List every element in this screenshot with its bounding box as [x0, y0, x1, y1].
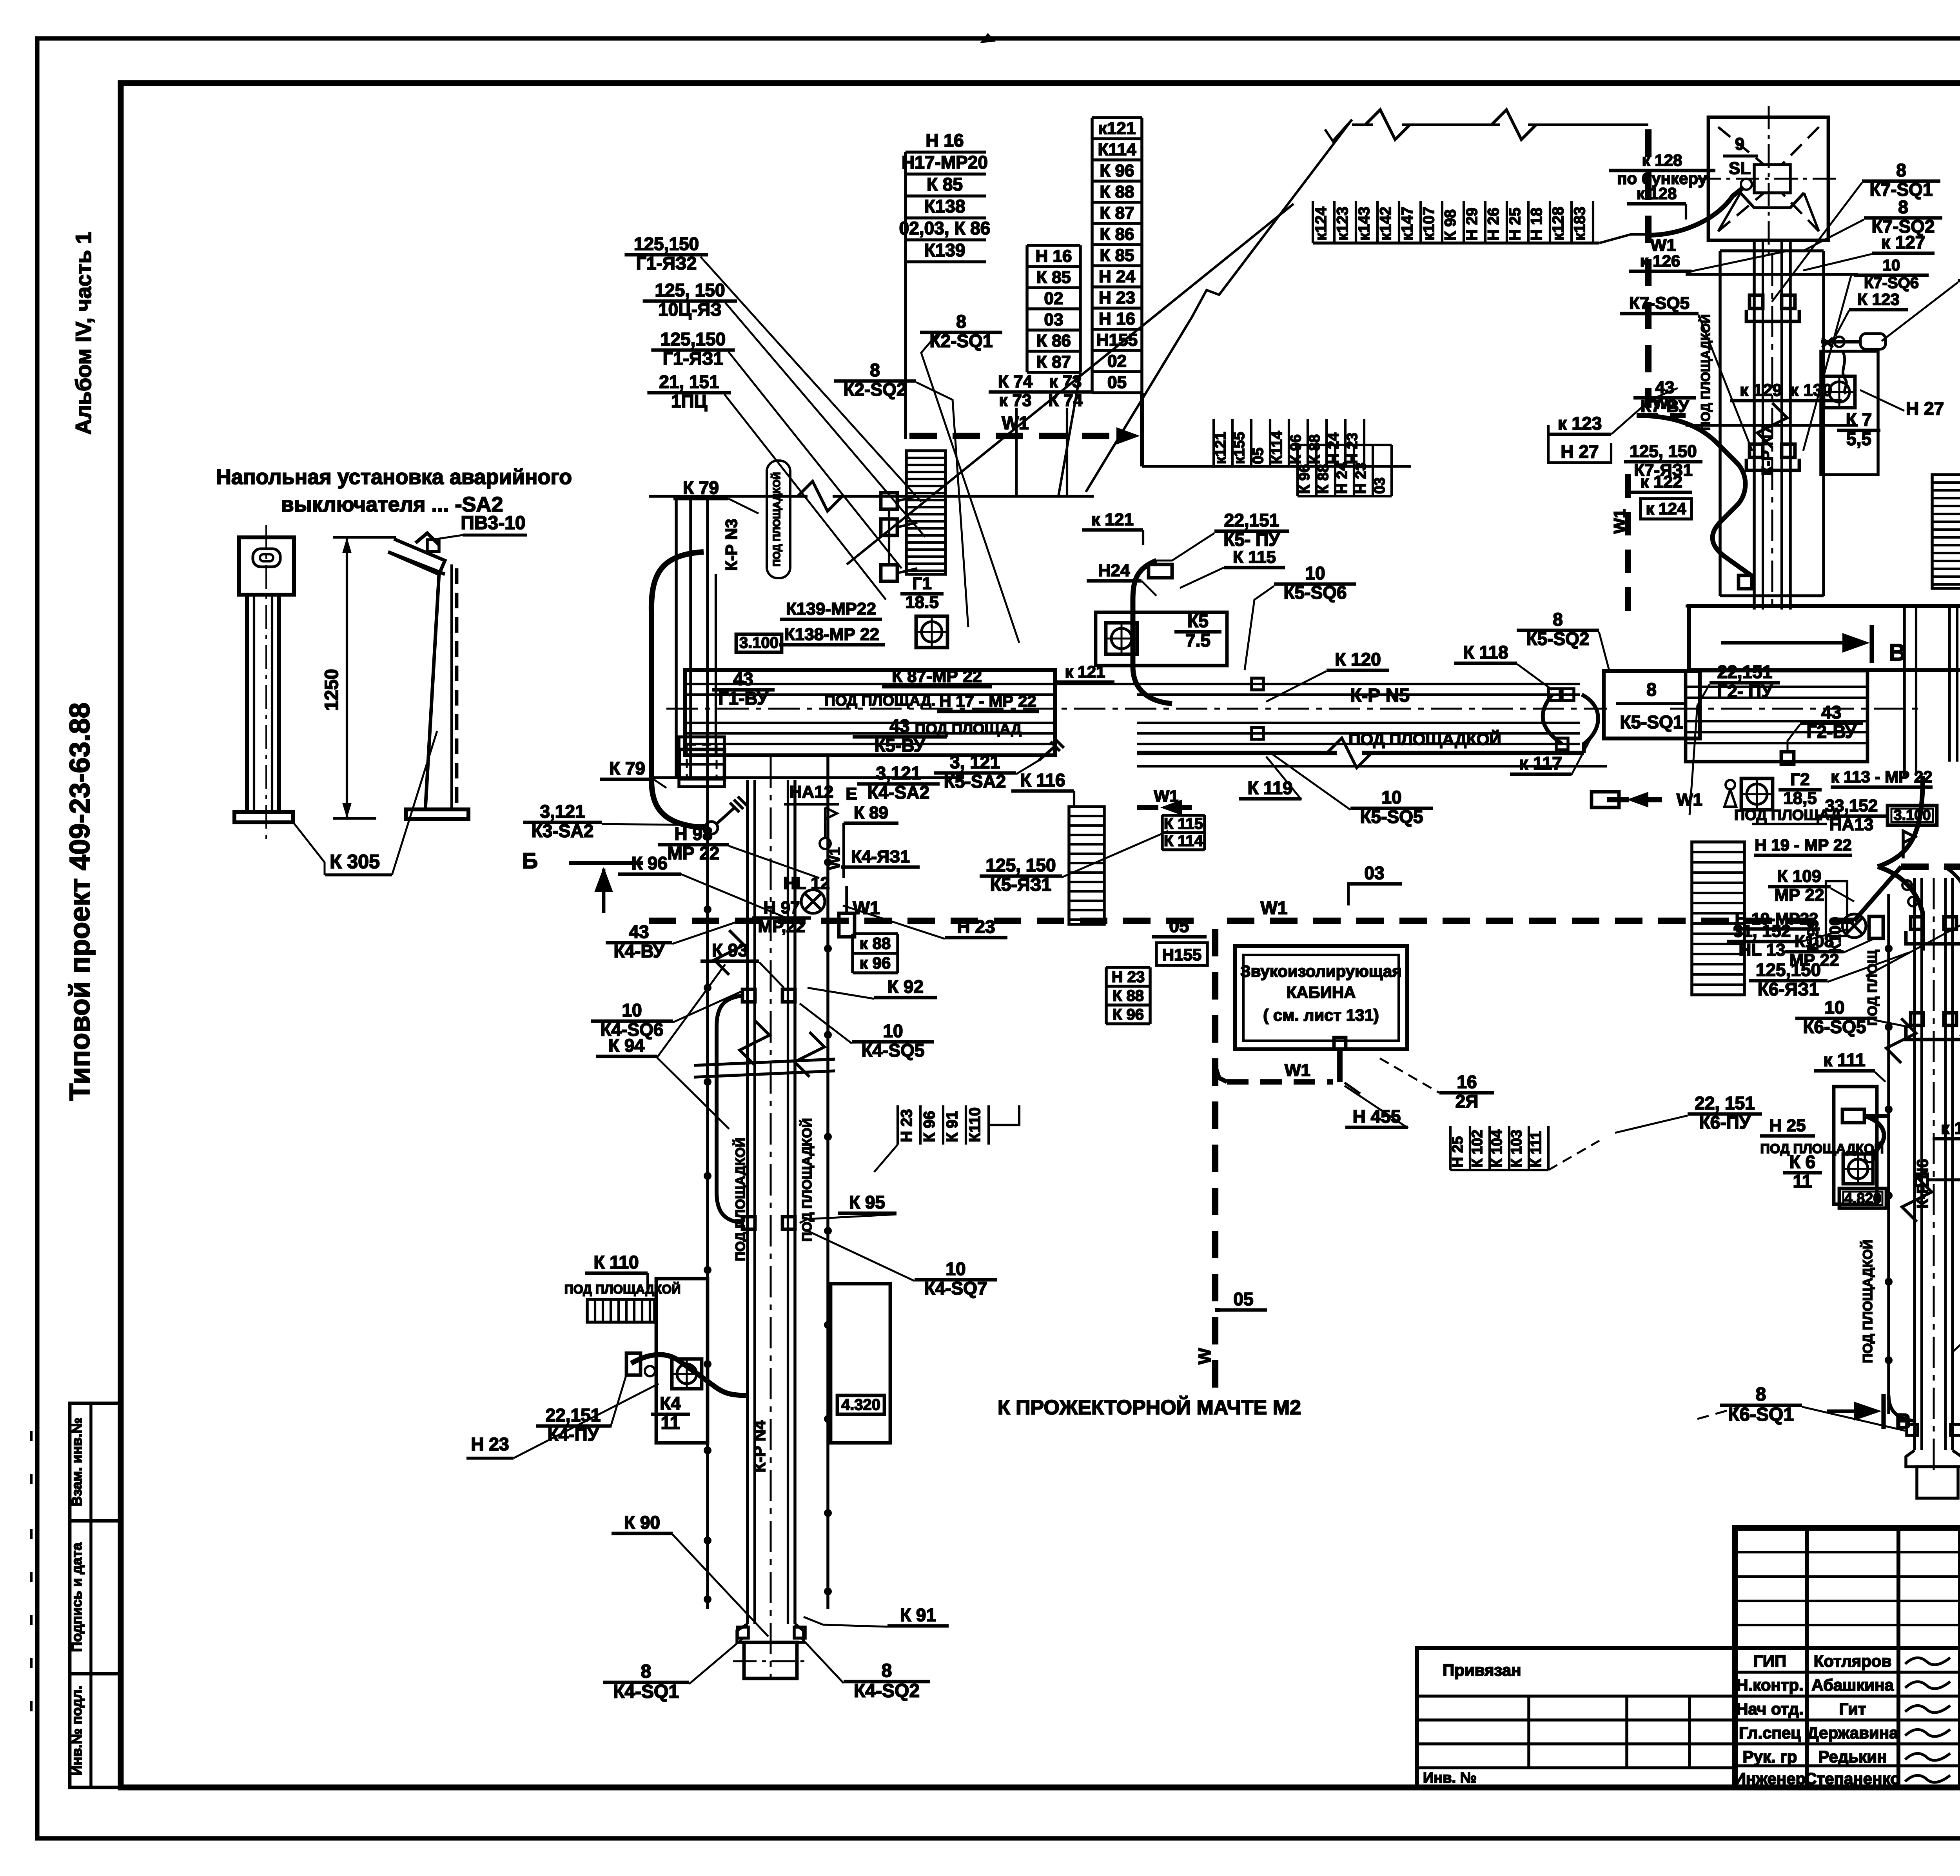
svg-text:к 123: к 123: [1558, 413, 1602, 434]
svg-text:1ПЦ: 1ПЦ: [671, 391, 708, 412]
wire W1 dashed vertical right tower: [1625, 474, 1631, 611]
svg-text:к 127: к 127: [1881, 232, 1926, 252]
svg-text:8: 8: [1756, 1384, 1766, 1405]
pedestal centerline: [265, 525, 267, 839]
boxed elevation 4.820: [1839, 1188, 1886, 1208]
svg-text:К114: К114: [1098, 140, 1136, 159]
svg-text:Инв. №: Инв. №: [1423, 1770, 1477, 1786]
svg-text:К 86: К 86: [1036, 331, 1071, 350]
motor G2: [1741, 778, 1773, 810]
svg-text:к 96: к 96: [860, 954, 891, 972]
svg-text:10: 10: [1381, 787, 1401, 807]
break lines across conveyor: [694, 1059, 835, 1065]
svg-text:Гл.спец: Гл.спец: [1739, 1724, 1801, 1742]
svg-text:9: 9: [1735, 134, 1744, 154]
svg-text:8: 8: [1646, 679, 1657, 700]
svg-text:к147: к147: [1399, 207, 1416, 241]
svg-text:Г1-ЯЗ1: Г1-ЯЗ1: [663, 348, 723, 369]
column pair K-P N3: [675, 496, 678, 778]
thick cable right end of K-P N5: [1543, 695, 1562, 744]
svg-text:К 95: К 95: [849, 1192, 885, 1212]
svg-text:К 88: К 88: [1100, 182, 1134, 201]
svg-text:W1: W1: [853, 898, 880, 918]
svg-text:к143: к143: [1356, 207, 1373, 241]
svg-text:В: В: [1895, 1409, 1911, 1433]
wire W1 dashed horizontal upper: [909, 433, 1129, 439]
svg-text:К4-ЯЗ1: К4-ЯЗ1: [851, 847, 910, 866]
svg-text:К5-SА2: К5-SА2: [944, 771, 1006, 792]
svg-text:К5-ВУ: К5-ВУ: [874, 735, 925, 756]
svg-text:8: 8: [870, 360, 880, 380]
svg-text:Н 27: Н 27: [1906, 398, 1944, 419]
svg-text:К 74: К 74: [998, 372, 1033, 391]
svg-text:к 103: к 103: [1941, 1119, 1960, 1138]
connector squares on K-P N5 right: [1548, 689, 1560, 700]
motor K4: [672, 1359, 702, 1389]
svg-text:К 118: К 118: [1463, 642, 1508, 662]
svg-text:МР 22: МР 22: [668, 843, 720, 864]
svg-text:Напольная установка аварийного: Напольная установка аварийного: [216, 465, 572, 489]
cable loop left of K4: [717, 996, 743, 1223]
small circle left of motor: [1726, 780, 1735, 789]
svg-text:8: 8: [956, 311, 966, 332]
svg-text:К4: К4: [660, 1393, 681, 1413]
svg-text:Альбом IV, часть 1: Альбом IV, часть 1: [71, 232, 96, 435]
svg-text:10: 10: [1824, 997, 1844, 1018]
svg-text:К6-ЯЗ1: К6-ЯЗ1: [1758, 979, 1819, 1000]
svg-text:К 79: К 79: [683, 477, 719, 498]
svg-text:4.820: 4.820: [1844, 1190, 1881, 1207]
svg-text:Н 25: Н 25: [1450, 1136, 1466, 1168]
svg-text:03: 03: [1364, 863, 1384, 883]
vertical pair right columns: [1948, 606, 1951, 762]
svg-text:3.100: 3.100: [1893, 807, 1931, 824]
svg-text:К 91: К 91: [944, 1111, 961, 1142]
lamp HL13: [1842, 914, 1866, 938]
svg-text:к 124: к 124: [1646, 499, 1686, 518]
svg-text:Н 19 - МР 22: Н 19 - МР 22: [1755, 836, 1851, 854]
svg-text:W1: W1: [1154, 787, 1179, 805]
svg-text:HL 13: HL 13: [1739, 940, 1785, 960]
thick cable hook left of K79: [652, 552, 706, 828]
motor K5: [1106, 623, 1137, 654]
svg-text:11: 11: [661, 1413, 680, 1433]
title block outer box: [1735, 1528, 1960, 1787]
limit squares at tail: [737, 1627, 748, 1638]
svg-text:К 104: К 104: [1489, 1130, 1505, 1168]
svg-text:1250: 1250: [321, 669, 342, 711]
boxed elevation 3.100 right: [1887, 806, 1937, 825]
drive box with dashed inner: [679, 737, 724, 787]
svg-text:К-Р N4: К-Р N4: [750, 1420, 769, 1473]
wire W1 dashed horizontal main lower: [649, 918, 1207, 924]
connector small rect: [626, 1353, 641, 1375]
svg-text:Н 17 - МР 22: Н 17 - МР 22: [939, 692, 1036, 710]
svg-text:к107: к107: [1420, 207, 1437, 241]
svg-text:к142: к142: [1377, 207, 1394, 241]
svg-text:ПВ3-10: ПВ3-10: [461, 513, 525, 533]
svg-text:3, 121: 3, 121: [950, 752, 1000, 772]
big platform rect right: [1689, 606, 1960, 670]
svg-text:к 130: к 130: [1790, 381, 1832, 400]
side view PV3-10 switch lever: [416, 533, 439, 545]
svg-text:02: 02: [1044, 289, 1063, 308]
svg-text:Н 23: Н 23: [471, 1434, 509, 1454]
long thin leader from N25/K107: [1866, 778, 1960, 976]
thick cable hook K6 drive: [1864, 1116, 1884, 1154]
platform rect G1: [685, 670, 1055, 755]
svg-text:43: 43: [733, 669, 753, 689]
tower centerline: [1771, 255, 1773, 611]
svg-text:Н 16: Н 16: [1099, 309, 1135, 328]
svg-text:К 110: К 110: [593, 1252, 639, 1272]
svg-text:03: 03: [1044, 310, 1063, 329]
connector box K4: [839, 913, 855, 937]
svg-text:К110: К110: [966, 1107, 984, 1142]
svg-text:18.5: 18.5: [905, 593, 939, 612]
svg-text:к128: к128: [1550, 207, 1567, 241]
switch pedestal front view box: [239, 537, 294, 595]
svg-text:К 96: К 96: [1112, 1006, 1144, 1023]
svg-text:125, 150: 125, 150: [1630, 442, 1697, 461]
svg-text:к 73: к 73: [999, 391, 1031, 410]
svg-text:22,151: 22,151: [1224, 510, 1279, 530]
left margin stamp column: [70, 1403, 121, 1787]
cabin connector square: [1334, 1038, 1346, 1049]
svg-text:Н155: Н155: [1162, 945, 1201, 964]
boxed elevation 3.100 left: [736, 634, 782, 652]
staircase hatch right of tower: [1932, 475, 1960, 588]
svg-text:Инв.№ подл.: Инв.№ подл.: [69, 1686, 85, 1776]
svg-text:К 74: К 74: [1048, 391, 1083, 410]
svg-text:8: 8: [1896, 160, 1906, 180]
svg-text:К 85: К 85: [1036, 268, 1071, 287]
svg-text:W1: W1: [1002, 413, 1029, 433]
svg-text:Г2: Г2: [1790, 770, 1809, 789]
svg-text:Подпись и дата: Подпись и дата: [69, 1542, 85, 1652]
bunker square dashed: [1708, 117, 1828, 240]
svg-text:Котляров: Котляров: [1814, 1652, 1892, 1670]
svg-text:21, 151: 21, 151: [659, 372, 719, 392]
svg-text:8: 8: [1898, 197, 1908, 217]
staircase hatched band center: [1069, 807, 1104, 924]
svg-text:HL 12: HL 12: [783, 874, 830, 893]
conveyor K-P N6 tail: [1906, 1450, 1960, 1467]
svg-text:Г2- ПУ: Г2- ПУ: [1717, 681, 1773, 702]
side view body: [425, 574, 439, 809]
svg-text:16: 16: [1457, 1072, 1477, 1092]
top horizontal leader line over bunker: [1352, 123, 1373, 126]
svg-text:18,5: 18,5: [1783, 789, 1817, 808]
svg-text:43: 43: [889, 716, 909, 736]
svg-text:31, 152: 31, 152: [1733, 922, 1791, 941]
K5 motor platform rect: [1096, 612, 1227, 666]
svg-text:к 121: к 121: [1091, 510, 1134, 529]
svg-text:К6-ПУ: К6-ПУ: [1699, 1112, 1751, 1133]
cabinet rect right of tower: [1821, 351, 1878, 475]
svg-text:05: 05: [1169, 916, 1189, 936]
connector small rect K115: [1149, 564, 1172, 578]
svg-text:3,121: 3,121: [540, 801, 585, 822]
svg-text:Взам. инв.№: Взам. инв.№: [69, 1418, 85, 1506]
svg-text:Н 23: Н 23: [957, 916, 995, 937]
svg-text:125,150: 125,150: [661, 329, 726, 349]
label k124 node: [1739, 575, 1752, 589]
break zigzags K6: [1886, 1018, 1916, 1063]
conveyor K-P N4 centerline: [770, 757, 772, 1678]
thin line under rotated row to right: [1142, 465, 1411, 468]
node circle at cable end: [705, 822, 718, 834]
scan tick marks left margin: [30, 1431, 33, 1441]
svg-text:К4-SA2: К4-SA2: [867, 782, 929, 803]
svg-text:ПОД ПЛОЩАДКОЙ: ПОД ПЛОЩАДКОЙ: [1348, 729, 1501, 748]
svg-text:К 79: К 79: [609, 758, 645, 778]
motor K6: [1843, 1154, 1873, 1184]
svg-text:МР,22: МР,22: [758, 917, 805, 936]
svg-text:10: 10: [622, 1000, 642, 1020]
svg-text:ПОД ПЛОЩАД: ПОД ПЛОЩАД: [915, 721, 1022, 737]
section arrow V (В): [1721, 641, 1864, 645]
G2 conveyor lines: [1686, 686, 1867, 688]
svg-text:К 6: К 6: [1789, 1152, 1815, 1172]
svg-text:МР 22: МР 22: [1774, 885, 1824, 905]
svg-text:К 89: К 89: [854, 803, 888, 822]
pedestal base plate: [234, 812, 293, 822]
svg-text:10: 10: [883, 1021, 903, 1041]
wire W1 arrow left of K5: [1137, 805, 1200, 810]
svg-text:125, 150: 125, 150: [655, 280, 725, 300]
svg-text:22,151: 22,151: [1717, 662, 1773, 682]
sound-proof cabin box: [1235, 946, 1407, 1049]
svg-text:( см. лист 131): ( см. лист 131): [1263, 1006, 1379, 1024]
svg-text:к 111: к 111: [1823, 1050, 1865, 1070]
svg-text:W1: W1: [1261, 898, 1288, 918]
staircase hatch bottom left: [587, 1299, 655, 1322]
svg-text:К139: К139: [924, 240, 965, 260]
svg-text:3.100: 3.100: [739, 634, 779, 651]
svg-text:К4-SQ2: К4-SQ2: [854, 1680, 920, 1701]
svg-text:4.320: 4.320: [841, 1396, 880, 1413]
limit squares K6 lower pair: [1916, 1174, 1927, 1186]
flag symbol: [824, 807, 826, 839]
node dots K-P N4: [704, 827, 711, 835]
svg-text:Г1: Г1: [912, 574, 931, 593]
svg-text:к 88: к 88: [860, 934, 891, 953]
pod ploshchadkoy rounded box vertical: [767, 461, 790, 578]
svg-text:Привязан: Привязан: [1443, 1661, 1521, 1679]
svg-text:К7-SQ5: К7-SQ5: [1629, 294, 1690, 313]
conveyor lines G1 to K5: [685, 683, 1055, 685]
svg-text:К5-SQ2: К5-SQ2: [1526, 629, 1589, 649]
conveyor K-P N5 lines: [1137, 683, 1580, 685]
svg-text:11: 11: [1793, 1171, 1812, 1192]
svg-text:К 123: К 123: [1857, 290, 1899, 308]
tower outer verticals: [1719, 251, 1722, 596]
bunker funnel: [1754, 165, 1790, 193]
connector at right end: [1592, 792, 1619, 807]
svg-text:К-Р N3: К-Р N3: [722, 519, 740, 571]
svg-text:Н 23: Н 23: [898, 1109, 915, 1143]
svg-text:W: W: [1195, 1348, 1214, 1364]
svg-text:к 128: к 128: [1637, 184, 1677, 203]
svg-text:8: 8: [1553, 609, 1563, 630]
svg-text:К138: К138: [924, 196, 965, 216]
svg-text:к124: к124: [1312, 206, 1330, 241]
svg-text:К-Р N7: К-Р N7: [1759, 426, 1776, 476]
svg-text:к 117: к 117: [1519, 753, 1562, 773]
motor K7: [1824, 376, 1855, 408]
svg-text:10: 10: [1883, 257, 1900, 274]
svg-text:К 86: К 86: [1100, 225, 1134, 244]
svg-text:ПОД ПЛОЩАДКОЙ: ПОД ПЛОЩАДКОЙ: [564, 1282, 681, 1296]
signature squiggles: [1905, 1658, 1950, 1665]
wire W1 from cabin: [1227, 1079, 1333, 1085]
connector squares on K-P N5 left: [1252, 678, 1263, 690]
cabin cable down: [1337, 1049, 1343, 1082]
svg-text:22,151: 22,151: [546, 1405, 601, 1425]
svg-text:Н 455: Н 455: [1353, 1106, 1401, 1127]
svg-text:Н 24: Н 24: [1099, 267, 1135, 286]
svg-text:10: 10: [1305, 563, 1325, 583]
svg-text:Редькин: Редькин: [1818, 1747, 1887, 1766]
thick cable from W1 to K5 zone: [1133, 561, 1172, 704]
thick cable drop from platform: [1878, 776, 1923, 867]
svg-text:К 87: К 87: [1036, 352, 1071, 372]
svg-text:К108: К108: [1795, 932, 1834, 951]
svg-text:к121: к121: [1098, 119, 1136, 138]
motor G1: [916, 616, 947, 648]
svg-text:к123: к123: [1334, 207, 1351, 241]
svg-text:Н 16: Н 16: [926, 130, 964, 151]
staircase hatched band upper left: [906, 451, 946, 574]
svg-text:ПОД ПЛОЩАДКОЙ: ПОД ПЛОЩАДКОЙ: [1860, 1239, 1875, 1363]
svg-text:К ПРОЖЕКТОРНОЙ МАЧТЕ М2: К ПРОЖЕКТОРНОЙ МАЧТЕ М2: [998, 1396, 1301, 1419]
svg-text:К 96: К 96: [1100, 161, 1134, 180]
svg-text:К 93: К 93: [712, 940, 748, 960]
label k124 boxed: [1641, 499, 1691, 519]
svg-text:К-Р N5: К-Р N5: [1350, 685, 1410, 706]
svg-text:К 103: К 103: [1508, 1130, 1525, 1168]
thick cable to K4 drive: [631, 1355, 748, 1395]
ground tick K5-SA2: [1039, 747, 1054, 760]
svg-text:Н 23: Н 23: [1112, 968, 1145, 985]
svg-text:К7-ВУ: К7-ВУ: [1641, 397, 1689, 416]
svg-text:SL: SL: [1729, 159, 1751, 178]
switch box right of tower: [1860, 334, 1886, 349]
K4 drive station rect: [656, 1279, 708, 1443]
svg-text:ПОД ПЛОЩАД.: ПОД ПЛОЩАД.: [825, 693, 936, 709]
svg-text:к 129: к 129: [1740, 381, 1782, 400]
svg-text:ПОД ПЛОЩАДКОЙ: ПОД ПЛОЩАДКОЙ: [733, 1138, 748, 1261]
connector square G2: [1781, 752, 1794, 764]
structure bottom line: [649, 776, 964, 779]
svg-text:к 126: к 126: [1640, 252, 1681, 270]
svg-text:К 7: К 7: [1846, 409, 1872, 430]
conveyor head box K-P N4: [679, 749, 724, 779]
svg-text:К4-SQ1: К4-SQ1: [613, 1681, 679, 1702]
svg-text:К5-SQ5: К5-SQ5: [1360, 807, 1423, 827]
svg-text:к 128: к 128: [1642, 151, 1682, 169]
side view slanted switch: [388, 539, 445, 574]
svg-text:к 122: к 122: [1640, 472, 1682, 492]
svg-text:К 87-МР 22: К 87-МР 22: [892, 667, 982, 686]
small circle K6: [1865, 1152, 1875, 1162]
svg-text:К 305: К 305: [330, 851, 380, 873]
svg-text:КАБИНА: КАБИНА: [1286, 983, 1356, 1002]
svg-text:К 85: К 85: [1100, 246, 1134, 265]
svg-text:8: 8: [882, 1660, 892, 1681]
svg-text:К 116: К 116: [1020, 770, 1065, 790]
svg-text:05: 05: [1233, 1289, 1253, 1309]
svg-text:Инженер: Инженер: [1734, 1769, 1806, 1788]
svg-text:Гит: Гит: [1839, 1700, 1866, 1718]
wire W1 right of K5 conveyor: [1607, 797, 1670, 802]
svg-text:К2-SQ1: К2-SQ1: [929, 331, 993, 351]
valve symbol: [1902, 880, 1912, 890]
svg-text:7.5: 7.5: [1185, 630, 1210, 651]
conveyor K-P N6 verticals: [1887, 894, 1890, 1414]
staircase hatch left of K6: [1692, 842, 1744, 995]
svg-text:К 91: К 91: [900, 1605, 936, 1625]
svg-text:Н 26: Н 26: [1485, 208, 1502, 241]
label box 8 / K5-SQ1: [1604, 671, 1700, 738]
svg-text:к183: к183: [1571, 207, 1588, 241]
svg-text:02: 02: [1107, 352, 1127, 371]
svg-text:К5-SQ6: К5-SQ6: [1283, 582, 1347, 603]
limit switch squares K6 top: [1911, 917, 1923, 929]
svg-text:К3-SА2: К3-SА2: [532, 821, 593, 841]
svg-text:125,150: 125,150: [634, 234, 699, 254]
K6 drive station rect: [1834, 1087, 1877, 1204]
star tick: [1822, 338, 1833, 347]
svg-text:К 115: К 115: [1164, 815, 1203, 832]
svg-text:К6-SQ5: К6-SQ5: [1803, 1017, 1866, 1037]
limit switch pair mid: [1749, 444, 1763, 457]
svg-text:К5-ЯЗ1: К5-ЯЗ1: [990, 874, 1051, 895]
svg-text:2Я: 2Я: [1455, 1091, 1479, 1112]
svg-text:Н24: Н24: [1098, 561, 1130, 580]
svg-text:К 114: К 114: [1164, 832, 1203, 849]
svg-text:К5- ПУ: К5- ПУ: [1223, 530, 1280, 550]
SL circle node: [1741, 179, 1752, 190]
svg-text:22, 151: 22, 151: [1695, 1093, 1755, 1113]
svg-text:К6-SQ1: К6-SQ1: [1728, 1404, 1794, 1425]
svg-text:К 94: К 94: [608, 1035, 644, 1056]
three connector squares: [881, 493, 897, 509]
svg-text:43: 43: [1821, 702, 1841, 722]
connector small rect K6: [1842, 1109, 1864, 1123]
title block revision rows top-left: [1735, 1551, 1960, 1553]
thick line under conveyor with break: [1137, 751, 1337, 755]
svg-text:К138-МР 22: К138-МР 22: [784, 625, 879, 644]
bunker centerlines: [1768, 106, 1770, 255]
svg-text:Е: Е: [846, 784, 857, 804]
svg-text:Степаненко: Степаненко: [1805, 1769, 1900, 1788]
svg-text:05: 05: [1107, 373, 1127, 392]
pedestal legs: [245, 595, 249, 812]
tower lower platform lines: [1720, 594, 1824, 597]
limit switch pair top: [1749, 295, 1763, 308]
svg-text:К5-SQ1: К5-SQ1: [1620, 712, 1683, 732]
wire W1 dashed vertical mid: [1212, 929, 1218, 1395]
second line under conveyor: [1137, 765, 1607, 767]
svg-text:К 111: К 111: [1528, 1131, 1544, 1168]
column pair 2: [706, 496, 709, 757]
title block row line under description: [1735, 1646, 1960, 1650]
svg-text:Г2-ВУ: Г2-ВУ: [1806, 722, 1857, 742]
svg-text:Н 25: Н 25: [1506, 208, 1524, 241]
thick cable bends K6 top: [1878, 867, 1923, 951]
